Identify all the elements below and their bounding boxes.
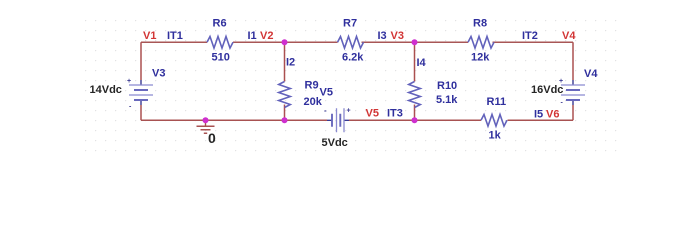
resistor R9 (vertical) bbox=[279, 80, 323, 109]
svg-text:+: + bbox=[127, 78, 131, 85]
node V3 junction dot bbox=[412, 39, 418, 45]
node 0 junction dot bbox=[203, 117, 209, 123]
svg-text:I4: I4 bbox=[417, 57, 427, 69]
node V2 junction dot bbox=[282, 39, 288, 45]
battery V5 (5Vdc, horizontal on bottom wire) bbox=[320, 87, 351, 150]
svg-text:R6: R6 bbox=[213, 18, 227, 30]
battery V4 (16Vdc) bbox=[531, 68, 598, 107]
wire bottom segment 2 (V5 battery to R11) bbox=[349, 119, 481, 121]
wire R10 branch vertical bbox=[414, 42, 416, 120]
svg-text:IT1: IT1 bbox=[167, 30, 183, 42]
resistor R7 bbox=[338, 18, 365, 64]
wire R9 branch vertical bbox=[284, 42, 286, 120]
wire top segment 1 (V1 corner to R6) bbox=[141, 41, 207, 43]
svg-text:510: 510 bbox=[212, 52, 230, 64]
wire bottom segment 3 (R11 to right corner) bbox=[508, 119, 574, 121]
wire top segment 4 (R8 to V4 corner) bbox=[493, 41, 574, 43]
wire top segment 2 (R6 to R7) bbox=[233, 41, 338, 43]
ground 0 bbox=[197, 120, 217, 146]
svg-text:V4: V4 bbox=[562, 30, 576, 42]
svg-text:V5: V5 bbox=[320, 87, 333, 99]
svg-text:I1: I1 bbox=[248, 30, 257, 42]
svg-text:IT2: IT2 bbox=[522, 30, 538, 42]
svg-text:-: - bbox=[324, 106, 327, 115]
resistor R11 (horizontal, bottom wire) bbox=[481, 96, 507, 142]
svg-text:6.2k: 6.2k bbox=[342, 52, 364, 64]
svg-text:I3: I3 bbox=[378, 30, 387, 42]
resistor R10 (vertical) bbox=[409, 80, 459, 108]
svg-text:0: 0 bbox=[208, 130, 216, 146]
svg-text:R8: R8 bbox=[473, 18, 487, 30]
wire right vertical (V4 top to battery V4 and down) bbox=[572, 42, 574, 120]
node R9-bottom junction dot bbox=[282, 117, 288, 123]
svg-text:14Vdc: 14Vdc bbox=[90, 84, 122, 96]
svg-text:V3: V3 bbox=[391, 30, 404, 42]
svg-text:R11: R11 bbox=[487, 96, 507, 108]
svg-text:16Vdc: 16Vdc bbox=[531, 84, 563, 96]
svg-text:V1: V1 bbox=[143, 30, 156, 42]
svg-text:5.1k: 5.1k bbox=[436, 94, 458, 106]
wire bottom segment 1 (left corner to V5 battery) bbox=[141, 119, 327, 121]
svg-text:I2: I2 bbox=[286, 57, 295, 69]
svg-text:I5: I5 bbox=[534, 109, 543, 121]
svg-text:IT3: IT3 bbox=[387, 108, 403, 120]
node IT3 junction dot bbox=[412, 117, 418, 123]
svg-text:12k: 12k bbox=[471, 52, 490, 64]
resistor R8 bbox=[468, 18, 494, 64]
svg-text:V4: V4 bbox=[584, 68, 598, 80]
wire left vertical (V1 to V3 battery and down to bottom) bbox=[140, 42, 142, 120]
svg-text:V3: V3 bbox=[152, 68, 165, 80]
svg-text:V6: V6 bbox=[546, 109, 559, 121]
svg-text:V5: V5 bbox=[366, 108, 379, 120]
wire top segment 3 (R7 to R8) bbox=[362, 41, 469, 43]
svg-text:1k: 1k bbox=[489, 130, 502, 142]
svg-text:R9: R9 bbox=[305, 80, 319, 92]
svg-text:R7: R7 bbox=[343, 18, 357, 30]
svg-text:V2: V2 bbox=[260, 30, 273, 42]
svg-text:R10: R10 bbox=[437, 80, 457, 92]
resistor R6 bbox=[207, 18, 233, 64]
svg-text:5Vdc: 5Vdc bbox=[322, 137, 348, 149]
battery V3 (14Vdc) bbox=[90, 68, 166, 111]
svg-text:+: + bbox=[347, 108, 351, 115]
